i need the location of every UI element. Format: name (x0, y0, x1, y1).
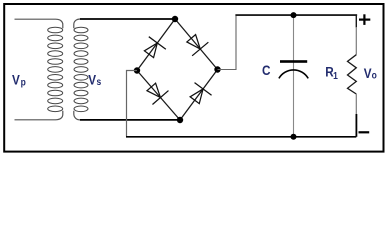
svg-text:s: s (96, 76, 101, 87)
diode D1 top-left (140, 37, 165, 61)
transformer T1 secondary winding (74, 19, 88, 120)
node dot capacitor bottom (291, 134, 297, 140)
node dot bridge top (172, 16, 178, 22)
wire bridge left node down to bottom rail (127, 71, 138, 137)
svg-text:C: C (262, 62, 270, 78)
label Vp (12, 71, 26, 87)
svg-text:V: V (88, 72, 96, 88)
wire bottom rail (126, 136, 356, 138)
node dot bridge right (214, 66, 220, 72)
capacitor C top plate (280, 60, 307, 63)
label C (262, 62, 270, 78)
capacitor C curved bottom plate (279, 70, 308, 78)
wire top rail (235, 14, 357, 16)
minus terminal (359, 131, 370, 133)
diode D3 bottom-left (143, 80, 168, 104)
wire bridge arm left-bottom (137, 71, 180, 121)
diode D4 bottom-right (186, 83, 211, 107)
label Vs (88, 72, 101, 88)
wire resistor bottom lead (355, 94, 357, 115)
plus terminal (359, 14, 370, 25)
wire capacitor branch vertical (293, 15, 295, 137)
wire resistor top lead (355, 15, 358, 27)
node dot bridge bottom (177, 117, 183, 123)
diode D2 top-right (183, 31, 208, 55)
wire bridge arm left-top (137, 19, 175, 71)
wire secondary bottom lead to bridge bottom node (80, 119, 180, 121)
svg-text:V: V (12, 71, 20, 87)
label Vo (364, 65, 377, 81)
wire bridge arm bottom-right (180, 70, 218, 121)
wire bridge right node up to top rail (218, 16, 237, 70)
label R1 (325, 64, 338, 81)
svg-text:p: p (21, 77, 26, 88)
resistor R1 zigzag (348, 55, 357, 94)
wire bridge arm top-right (175, 19, 218, 70)
svg-text:o: o (372, 70, 377, 81)
transformer T1 primary winding (15, 19, 63, 120)
svg-text:1: 1 (333, 70, 338, 81)
svg-text:V: V (364, 65, 372, 81)
node dot bridge left (134, 67, 140, 73)
node dot capacitor top (291, 12, 297, 18)
wire secondary top lead to bridge top node (80, 18, 175, 20)
